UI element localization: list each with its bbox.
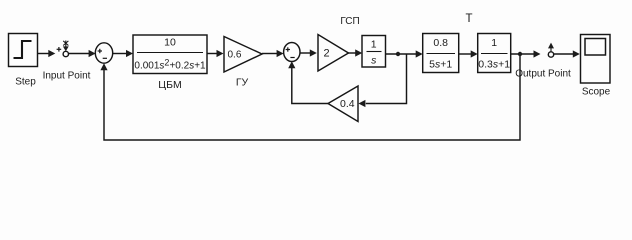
svg-text:0.001s2+0.2s+1: 0.001s2+0.2s+1 bbox=[134, 58, 206, 72]
svg-text:1: 1 bbox=[371, 39, 377, 51]
wire gain GU to Sum2 bbox=[262, 53, 277, 55]
arrowhead into TF 0.8 bbox=[416, 50, 423, 57]
svg-text:10: 10 bbox=[164, 37, 176, 49]
arrowhead into Sum1 bbox=[89, 50, 96, 57]
svg-text:0.4: 0.4 bbox=[340, 98, 355, 110]
arrowhead into gain 0.4 bbox=[358, 100, 365, 107]
gain block GU 0.6 bbox=[224, 37, 262, 73]
TF block 0.8/(5s+1) bbox=[423, 34, 459, 73]
wire Output Point to Scope bbox=[554, 53, 573, 55]
svg-text:2: 2 bbox=[324, 48, 330, 60]
input point marker (x + down arrow) bbox=[63, 41, 69, 52]
arrowhead up into Sum1 bbox=[100, 63, 107, 70]
transfer function block 10/(0.001s^2+0.2s+1) bbox=[133, 35, 207, 74]
arrowhead into TF 0.3 bbox=[471, 50, 478, 57]
gain block 2 bbox=[318, 35, 349, 72]
svg-text:Output Point: Output Point bbox=[515, 69, 571, 80]
wire TF 0.8 to TF 0.3 bbox=[459, 53, 471, 55]
summing junction Sum2 bbox=[284, 43, 300, 62]
arrowhead into gain 2 bbox=[310, 49, 317, 56]
junction dot after integrator bbox=[396, 52, 400, 56]
integrator block 1/s bbox=[362, 36, 386, 68]
TF block 1/(0.3s+1) bbox=[478, 34, 511, 73]
outer feedback wire from output tap to Sum1 bbox=[104, 56, 520, 140]
junction dot output tap bbox=[518, 52, 522, 56]
svg-text:ГУ: ГУ bbox=[236, 77, 249, 89]
svg-text:1: 1 bbox=[491, 37, 497, 49]
arrowhead into Output Point bbox=[534, 50, 541, 57]
arrowhead into TF block bbox=[126, 50, 133, 57]
plus sign at Input Point bbox=[57, 47, 62, 52]
summing junction Sum1 bbox=[95, 43, 112, 63]
arrowhead up into Sum2 bbox=[288, 61, 295, 68]
wire TF block to gain GU bbox=[207, 53, 217, 55]
svg-text:s: s bbox=[371, 55, 377, 67]
wire Input Point to Sum1 bbox=[69, 53, 90, 55]
svg-text:0.8: 0.8 bbox=[433, 37, 448, 49]
inner feedback wire to Sum2 bbox=[292, 68, 328, 104]
svg-text:ЦБМ: ЦБМ bbox=[158, 79, 181, 91]
arrowhead into Input Point bbox=[48, 50, 55, 57]
svg-text:Step: Step bbox=[15, 77, 36, 88]
svg-text:0.6: 0.6 bbox=[228, 50, 242, 61]
source block Step bbox=[9, 34, 38, 67]
output point circle bbox=[548, 52, 553, 57]
arrowhead into gain GU bbox=[217, 50, 224, 57]
svg-text:Input Point: Input Point bbox=[43, 71, 91, 82]
inner feedback wire down from tap bbox=[366, 54, 407, 104]
wire gain 2 to integrator bbox=[349, 52, 356, 54]
input point circle bbox=[63, 51, 68, 56]
sink block Scope bbox=[581, 35, 611, 84]
output point marker (up arrow) bbox=[548, 43, 554, 52]
svg-text:0.3s+1: 0.3s+1 bbox=[478, 59, 510, 71]
svg-text:T: T bbox=[465, 13, 472, 25]
svg-text:5s+1: 5s+1 bbox=[429, 59, 452, 71]
svg-text:ГСП: ГСП bbox=[340, 16, 359, 27]
arrowhead into integrator bbox=[355, 49, 362, 56]
svg-text:Scope: Scope bbox=[582, 87, 611, 98]
arrowhead into Sum2 bbox=[277, 50, 284, 57]
wire Sum1 to TF block bbox=[113, 53, 127, 55]
wire TF 0.3 to Output Point bbox=[511, 53, 534, 55]
wire integrator to TF 0.8 bbox=[386, 53, 417, 55]
arrowhead into Scope bbox=[573, 50, 580, 57]
gain block 0.4 (feedback) bbox=[328, 86, 358, 122]
wire Sum2 to gain 2 bbox=[300, 52, 310, 54]
wire Step to Input Point bbox=[38, 53, 50, 55]
